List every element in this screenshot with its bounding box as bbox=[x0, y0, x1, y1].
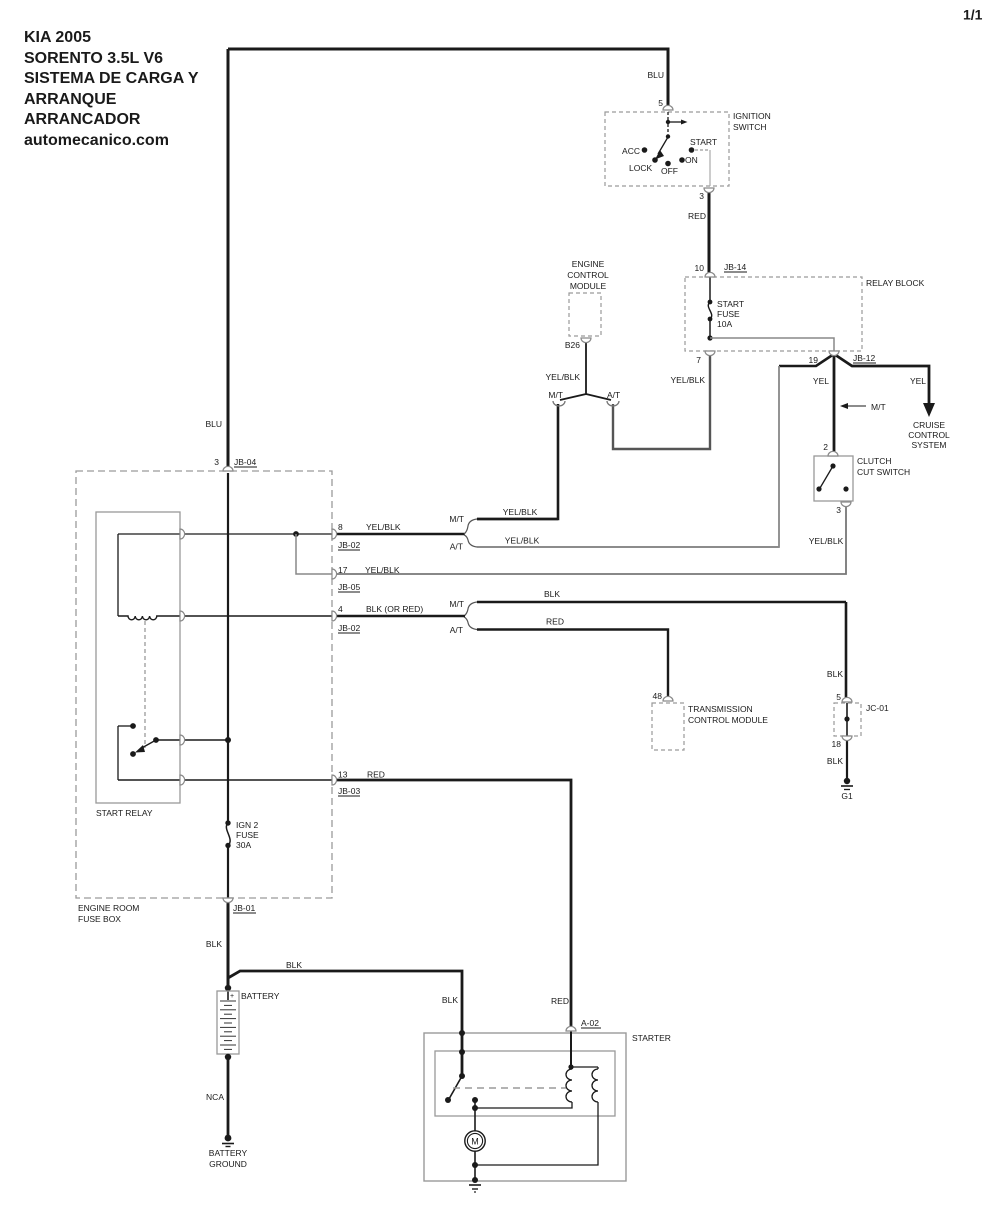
svg-text:JB-12: JB-12 bbox=[853, 353, 875, 363]
svg-text:ACC: ACC bbox=[622, 146, 640, 156]
svg-text:JB-02: JB-02 bbox=[338, 540, 360, 550]
svg-text:SWITCH: SWITCH bbox=[733, 122, 767, 132]
svg-text:A-02: A-02 bbox=[581, 1018, 599, 1028]
svg-text:3: 3 bbox=[836, 505, 841, 515]
svg-text:4: 4 bbox=[338, 604, 343, 614]
svg-text:RED: RED bbox=[367, 770, 385, 780]
svg-text:19: 19 bbox=[809, 355, 819, 365]
svg-text:YEL/BLK: YEL/BLK bbox=[505, 536, 540, 546]
svg-text:M: M bbox=[471, 1137, 479, 1147]
svg-text:SYSTEM: SYSTEM bbox=[912, 440, 947, 450]
svg-text:CRUISE: CRUISE bbox=[913, 420, 945, 430]
svg-text:JB-03: JB-03 bbox=[338, 786, 360, 796]
svg-text:BLK: BLK bbox=[442, 995, 458, 1005]
svg-text:YEL/BLK: YEL/BLK bbox=[546, 372, 581, 382]
svg-text:FUSE BOX: FUSE BOX bbox=[78, 914, 121, 924]
svg-text:ENGINE ROOM: ENGINE ROOM bbox=[78, 903, 139, 913]
svg-text:13: 13 bbox=[338, 770, 348, 780]
svg-text:10: 10 bbox=[695, 263, 705, 273]
svg-text:YEL: YEL bbox=[910, 376, 926, 386]
svg-text:OFF: OFF bbox=[661, 166, 678, 176]
svg-text:JC-01: JC-01 bbox=[866, 703, 889, 713]
svg-text:B26: B26 bbox=[565, 340, 580, 350]
svg-text:18: 18 bbox=[832, 739, 842, 749]
svg-text:CONTROL MODULE: CONTROL MODULE bbox=[688, 715, 768, 725]
svg-text:30A: 30A bbox=[236, 840, 251, 850]
svg-text:JB-04: JB-04 bbox=[234, 457, 256, 467]
svg-text:A/T: A/T bbox=[450, 625, 463, 635]
svg-text:M/T: M/T bbox=[449, 514, 464, 524]
svg-text:KIA 2005: KIA 2005 bbox=[24, 29, 91, 46]
svg-text:FUSE: FUSE bbox=[236, 830, 259, 840]
svg-text:IGNITION: IGNITION bbox=[733, 111, 771, 121]
svg-text:2: 2 bbox=[823, 442, 828, 452]
svg-text:M/T: M/T bbox=[548, 390, 563, 400]
svg-text:ON: ON bbox=[685, 155, 698, 165]
svg-text:START RELAY: START RELAY bbox=[96, 808, 153, 818]
svg-text:START: START bbox=[717, 299, 744, 309]
svg-text:M/T: M/T bbox=[871, 402, 886, 412]
svg-text:LOCK: LOCK bbox=[629, 163, 652, 173]
svg-text:BLK: BLK bbox=[206, 939, 222, 949]
svg-text:NCA: NCA bbox=[206, 1092, 224, 1102]
svg-text:YEL: YEL bbox=[813, 376, 829, 386]
svg-text:YEL/BLK: YEL/BLK bbox=[671, 375, 706, 385]
svg-text:CONTROL: CONTROL bbox=[908, 430, 950, 440]
svg-text:M/T: M/T bbox=[449, 599, 464, 609]
svg-text:JB-02: JB-02 bbox=[338, 623, 360, 633]
svg-text:BLU: BLU bbox=[647, 70, 664, 80]
svg-text:SISTEMA DE CARGA Y: SISTEMA DE CARGA Y bbox=[24, 70, 199, 87]
svg-text:CLUTCH: CLUTCH bbox=[857, 456, 891, 466]
svg-text:JB-01: JB-01 bbox=[233, 903, 255, 913]
svg-text:BLK: BLK bbox=[827, 756, 843, 766]
svg-text:ENGINE: ENGINE bbox=[572, 259, 605, 269]
svg-text:RELAY BLOCK: RELAY BLOCK bbox=[866, 278, 925, 288]
svg-text:5: 5 bbox=[836, 692, 841, 702]
svg-text:YEL/BLK: YEL/BLK bbox=[366, 522, 401, 532]
svg-text:ARRANQUE: ARRANQUE bbox=[24, 91, 117, 108]
svg-text:GROUND: GROUND bbox=[209, 1159, 247, 1169]
svg-text:START: START bbox=[690, 137, 717, 147]
svg-text:48: 48 bbox=[653, 691, 663, 701]
svg-text:1/1: 1/1 bbox=[963, 7, 983, 23]
svg-text:10A: 10A bbox=[717, 319, 732, 329]
svg-text:BLK: BLK bbox=[827, 669, 843, 679]
svg-text:BLK: BLK bbox=[286, 960, 302, 970]
svg-text:RED: RED bbox=[546, 617, 564, 627]
svg-text:5: 5 bbox=[658, 98, 663, 108]
svg-text:+: + bbox=[230, 993, 234, 1000]
svg-text:BLK: BLK bbox=[544, 589, 560, 599]
svg-text:8: 8 bbox=[338, 522, 343, 532]
svg-text:BATTERY: BATTERY bbox=[209, 1148, 248, 1158]
svg-text:BLK (OR RED): BLK (OR RED) bbox=[366, 604, 423, 614]
svg-text:7: 7 bbox=[696, 355, 701, 365]
svg-text:JB-14: JB-14 bbox=[724, 262, 746, 272]
svg-text:MODULE: MODULE bbox=[570, 281, 607, 291]
svg-text:TRANSMISSION: TRANSMISSION bbox=[688, 704, 753, 714]
svg-text:3: 3 bbox=[699, 191, 704, 201]
svg-text:YEL/BLK: YEL/BLK bbox=[365, 565, 400, 575]
svg-text:JB-05: JB-05 bbox=[338, 582, 360, 592]
svg-text:SORENTO 3.5L V6: SORENTO 3.5L V6 bbox=[24, 50, 163, 67]
svg-text:FUSE: FUSE bbox=[717, 309, 740, 319]
svg-text:RED: RED bbox=[551, 996, 569, 1006]
svg-text:A/T: A/T bbox=[450, 542, 463, 552]
svg-text:STARTER: STARTER bbox=[632, 1033, 671, 1043]
svg-text:automecanico.com: automecanico.com bbox=[24, 132, 169, 149]
svg-text:G1: G1 bbox=[841, 791, 853, 801]
svg-text:ARRANCADOR: ARRANCADOR bbox=[24, 111, 141, 128]
svg-text:A/T: A/T bbox=[607, 390, 620, 400]
svg-text:CONTROL: CONTROL bbox=[567, 270, 609, 280]
svg-text:IGN 2: IGN 2 bbox=[236, 820, 258, 830]
svg-text:17: 17 bbox=[338, 565, 348, 575]
svg-text:BATTERY: BATTERY bbox=[241, 991, 280, 1001]
svg-text:YEL/BLK: YEL/BLK bbox=[503, 507, 538, 517]
svg-text:RED: RED bbox=[688, 211, 706, 221]
svg-text:YEL/BLK: YEL/BLK bbox=[809, 536, 844, 546]
svg-text:3: 3 bbox=[214, 457, 219, 467]
svg-text:CUT SWITCH: CUT SWITCH bbox=[857, 467, 910, 477]
svg-text:BLU: BLU bbox=[205, 419, 222, 429]
